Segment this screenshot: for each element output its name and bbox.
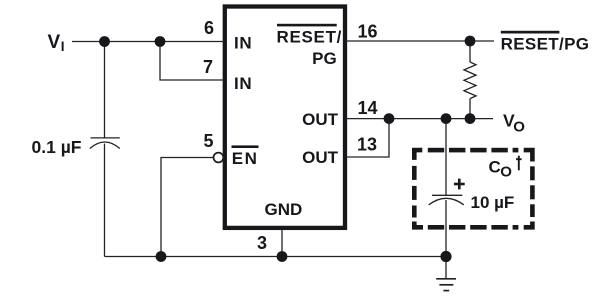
svg-text:5: 5 — [204, 131, 214, 151]
svg-text:GND: GND — [265, 200, 303, 219]
svg-text:PG: PG — [312, 49, 337, 68]
EN inverter bubble pin 5 — [214, 153, 224, 163]
pin label RESET/ overline — [277, 24, 337, 27]
svg-text:OUT: OUT — [302, 110, 339, 129]
svg-text:3: 3 — [257, 233, 267, 253]
node: RESET line / resistor junction — [465, 36, 476, 47]
wire output cap drop — [445, 119, 447, 196]
node: IN pins junction — [155, 36, 166, 47]
svg-text:14: 14 — [358, 98, 378, 118]
net label RESET/PG overline — [501, 31, 560, 34]
svg-text:OUT: OUT — [302, 148, 339, 167]
resistor R1 zigzag — [464, 62, 476, 99]
node: VO resistor junction — [465, 113, 476, 124]
wire resistor bottom lead — [469, 99, 471, 119]
wire cap to ground rail — [104, 144, 106, 257]
svg-text:O: O — [513, 119, 525, 136]
svg-text:C: C — [489, 158, 501, 177]
svg-text:10 µF: 10 µF — [471, 193, 515, 212]
IC U1 body — [225, 7, 345, 228]
wire ground stub — [445, 257, 447, 279]
capacitor CO dashed boundary — [412, 148, 535, 230]
pin label EN overline — [232, 145, 259, 148]
wire EN pull-down — [161, 158, 213, 257]
svg-text:IN: IN — [234, 34, 252, 53]
node: pin 13 riser junction — [384, 113, 395, 124]
svg-text:IN: IN — [234, 74, 252, 93]
wire pin 13 branch — [346, 119, 389, 157]
svg-text:I: I — [61, 39, 65, 54]
node: EN / ground rail junction — [156, 251, 167, 262]
wire VO rail pin 14 — [346, 118, 493, 120]
svg-text:EN: EN — [232, 149, 259, 168]
wire ground rail — [105, 256, 447, 258]
node: VI / C1 junction — [99, 36, 110, 47]
svg-text:RESET/: RESET/ — [277, 28, 343, 47]
svg-text:V: V — [48, 32, 61, 53]
node: GND pin / ground rail junction — [277, 251, 288, 262]
svg-text:0.1 µF: 0.1 µF — [32, 137, 82, 157]
svg-text:13: 13 — [357, 135, 377, 155]
svg-text:O: O — [500, 163, 512, 180]
wire input cap drop — [104, 42, 106, 138]
wire pin 7 branch — [160, 42, 224, 81]
wire VI to IN pin 6 — [72, 41, 224, 43]
capacitor C2 curved plate — [429, 198, 464, 205]
svg-text:7: 7 — [203, 57, 213, 77]
wire cap to ground node — [445, 200, 447, 257]
node: ground rail / earth junction — [440, 251, 451, 262]
svg-text:RESET/PG: RESET/PG — [501, 35, 590, 54]
capacitor C1 curved plate — [90, 142, 120, 149]
plus polarity mark — [454, 179, 465, 190]
capacitor C2 top plate — [432, 194, 462, 196]
node: VO / CO junction — [441, 113, 452, 124]
ground symbol — [436, 279, 456, 291]
svg-text:16: 16 — [358, 21, 378, 41]
capacitor C1 top plate — [91, 137, 120, 139]
wire pin 16 RESET/PG — [346, 40, 494, 42]
wire resistor top lead — [469, 41, 471, 62]
svg-text:6: 6 — [204, 18, 214, 38]
wire GND pin 3 — [281, 229, 283, 257]
